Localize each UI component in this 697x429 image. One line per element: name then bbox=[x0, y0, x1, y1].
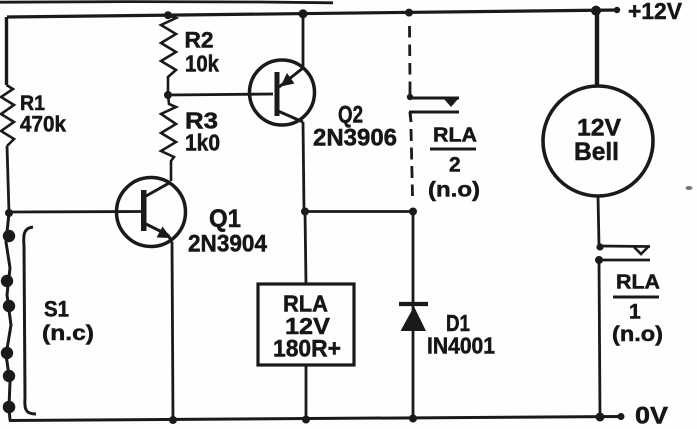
node: +12V terminal dot bbox=[614, 7, 620, 13]
svg-text:2N3906: 2N3906 bbox=[313, 125, 397, 152]
svg-text:(n.o): (n.o) bbox=[428, 179, 480, 202]
node: R2/R3/Q2-base junction bbox=[164, 91, 172, 99]
node: Q2 emitter rail junction bbox=[299, 9, 308, 18]
node: RLA coil top junction bbox=[301, 208, 309, 216]
svg-text:+12V: +12V bbox=[628, 0, 682, 24]
node: Q1 emitter rail junction bbox=[169, 416, 177, 424]
contact RLA/2 dashed link upper bbox=[408, 26, 411, 83]
contact RLA/1 bbox=[596, 243, 603, 250]
wire: node to RLA coil bbox=[305, 211, 306, 284]
switch S1 chain wire bbox=[6, 213, 11, 421]
svg-text:470k: 470k bbox=[20, 112, 67, 137]
transistor Q2 bbox=[250, 60, 315, 125]
svg-text:Q1: Q1 bbox=[209, 205, 241, 233]
svg-text:1: 1 bbox=[629, 301, 641, 324]
wire: R1 bottom to base node bbox=[7, 146, 9, 213]
resistor R3 bbox=[161, 95, 176, 181]
node: 0V terminal dot bbox=[618, 413, 625, 420]
wire: junction to Q2 base bbox=[168, 94, 273, 95]
stray mark right edge bbox=[686, 186, 693, 190]
+12V rail bbox=[7, 10, 617, 17]
wire: Q1 emitter to 0V bbox=[172, 242, 173, 420]
node: D1 top junction bbox=[409, 208, 417, 216]
svg-text:0V: 0V bbox=[635, 403, 668, 429]
Q2 emitter diagonal with arrow (PNP) bbox=[279, 68, 303, 87]
Q2 collector diagonal bbox=[278, 111, 303, 122]
svg-text:(n.o): (n.o) bbox=[612, 323, 663, 346]
node: RLA/1 rail junction bbox=[596, 413, 605, 422]
relay coil RLA bbox=[258, 284, 354, 365]
svg-text:RLA: RLA bbox=[616, 272, 660, 294]
bell B1 bbox=[543, 86, 653, 196]
wire: Q2 emitter to +12V bbox=[302, 13, 305, 68]
resistor R2 bbox=[161, 16, 176, 95]
node: RLA coil rail junction bbox=[302, 416, 310, 424]
svg-text:2N3904: 2N3904 bbox=[188, 231, 268, 258]
svg-text:S1: S1 bbox=[44, 297, 69, 322]
0V rail bbox=[9, 417, 621, 421]
node: R1/S1/base junction bbox=[5, 209, 13, 217]
contact RLA/2 bbox=[407, 94, 413, 100]
wire: RLA coil to 0V bbox=[305, 365, 308, 420]
node: RLA/2 rail junction bbox=[405, 9, 413, 17]
node: bell rail junction bbox=[591, 6, 601, 16]
wire: base of Q1 bbox=[9, 210, 141, 213]
transistor Q1 bbox=[117, 178, 186, 247]
svg-text:IN4001: IN4001 bbox=[427, 333, 495, 359]
svg-text:RLA: RLA bbox=[433, 125, 477, 147]
wire: left vertical from +12V to R1 bbox=[5, 17, 8, 85]
contact RLA/2 dashed link lower bbox=[411, 129, 413, 196]
svg-text:180R+: 180R+ bbox=[273, 336, 341, 363]
Q1 collector diagonal bbox=[146, 182, 171, 196]
resistor R1 bbox=[1, 85, 14, 146]
svg-text:1k0: 1k0 bbox=[185, 130, 220, 156]
svg-text:2: 2 bbox=[449, 154, 461, 177]
diode D1 bbox=[412, 211, 415, 419]
bracket for S1 bbox=[24, 227, 36, 414]
wire: bell to RLA/1 contact bbox=[598, 196, 599, 246]
scan border line bbox=[0, 2, 333, 3]
svg-text:10k: 10k bbox=[185, 51, 219, 77]
wire: RLA/1 to 0V bbox=[599, 260, 600, 417]
wire: collector node horizontal bbox=[304, 210, 413, 213]
switch S1 contact dots bbox=[3, 230, 15, 242]
svg-text:R2: R2 bbox=[185, 28, 214, 53]
node: D1 rail junction bbox=[409, 415, 417, 423]
Q1 emitter diagonal with arrow bbox=[146, 224, 168, 235]
svg-text:(n.c): (n.c) bbox=[42, 322, 94, 345]
wire: Q2 collector down to node bbox=[303, 122, 304, 211]
node: R2 top junction bbox=[164, 11, 172, 19]
wire: rail to bell bbox=[595, 11, 599, 87]
svg-text:Bell: Bell bbox=[574, 138, 619, 166]
